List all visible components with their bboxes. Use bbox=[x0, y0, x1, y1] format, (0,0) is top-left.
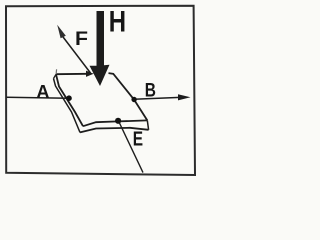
svg-text:B: B bbox=[145, 80, 156, 102]
svg-text:H: H bbox=[109, 6, 126, 38]
svg-text:F: F bbox=[75, 29, 88, 50]
svg-text:A: A bbox=[36, 81, 49, 102]
svg-text:E: E bbox=[133, 129, 143, 151]
